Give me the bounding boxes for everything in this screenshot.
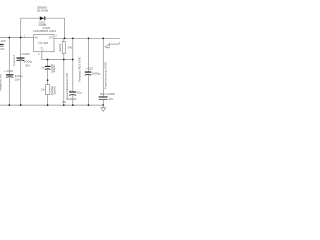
wire C207 branch [88,38,90,71]
svg-text:Powercon 5V0: Powercon 5V0 [0,73,3,91]
svg-text:OUT: OUT [49,36,54,39]
svg-text:100µ: 100µ [23,60,33,64]
wire ADJ stub [42,52,73,60]
pin numbers [24,34,58,56]
svg-text:IN: IN [35,36,38,39]
IC201 labels [33,26,57,51]
output flag arrow [105,42,120,48]
ground [101,105,106,111]
svg-text:0LVN8: 0LVN8 [37,9,49,13]
svg-text:20n: 20n [109,97,114,101]
svg-text:50n C209: 50n C209 [100,92,116,96]
capacitor C204 [17,52,33,67]
svg-text:C206 16V: C206 16V [68,97,77,101]
wire OUT rail [54,37,120,39]
svg-text:25V: 25V [25,63,30,67]
svg-text:20n: 20n [0,47,5,51]
wire C206 branch [72,60,74,92]
svg-text:100µ: 100µ [15,74,24,78]
svg-text:R201: R201 [59,43,62,52]
svg-text:Fusecon 5: Fusecon 5 [13,54,16,66]
wire pot branch [63,60,65,106]
node dots [8,37,104,106]
svg-text:Feedback ADJ 5V00: Feedback ADJ 5V00 [79,56,82,82]
svg-text:1k00: 1k00 [53,85,56,95]
resistor R202 [41,85,56,95]
svg-text:25V: 25V [15,78,20,82]
capacitor C209 [99,92,116,101]
resistor R201 [59,42,73,54]
wire IN rail [0,37,34,39]
diode D201 [40,16,46,20]
svg-text:Poweradjustsense 5V0: Poweradjustsense 5V0 [66,72,69,100]
capacitor C203 [4,69,23,81]
svg-text:TO-220: TO-220 [38,41,49,45]
svg-text:DJ: DJ [41,50,44,52]
op-amp regulator IC201 box [34,35,54,52]
wire C209 branch [102,38,104,96]
wire top rail [21,18,65,38]
capacitor C205 [41,63,56,72]
svg-text:25V: 25V [62,100,66,104]
svg-text:10µ: 10µ [77,91,83,95]
svg-text:+ C204: + C204 [19,52,30,56]
svg-text:240: 240 [68,46,73,50]
wire left vertical C203 [8,38,10,75]
diode labels [37,5,49,27]
svg-text:+ C207: + C207 [85,66,94,70]
wire bottom rail [0,104,103,106]
svg-text:1000µ: 1000µ [92,72,101,76]
wire sense vertical [72,38,74,59]
capacitor C207 [85,66,101,75]
svg-text:10µF: 10µF [53,63,56,72]
capacitor C206 [62,89,82,104]
capacitor C202 far left [0,39,6,51]
wire R201 stubs [63,38,65,41]
wire C205 branch [47,60,49,66]
svg-text:Powerout sense 5V00: Powerout sense 5V00 [105,61,108,89]
svg-text:LM1085IT-ADJ: LM1085IT-ADJ [33,29,57,33]
svg-text:230: 230 [1,39,6,43]
svg-text:+ C203: + C203 [4,69,14,73]
wire vertical C204 [20,38,22,58]
svg-text:10µ: 10µ [41,66,45,70]
